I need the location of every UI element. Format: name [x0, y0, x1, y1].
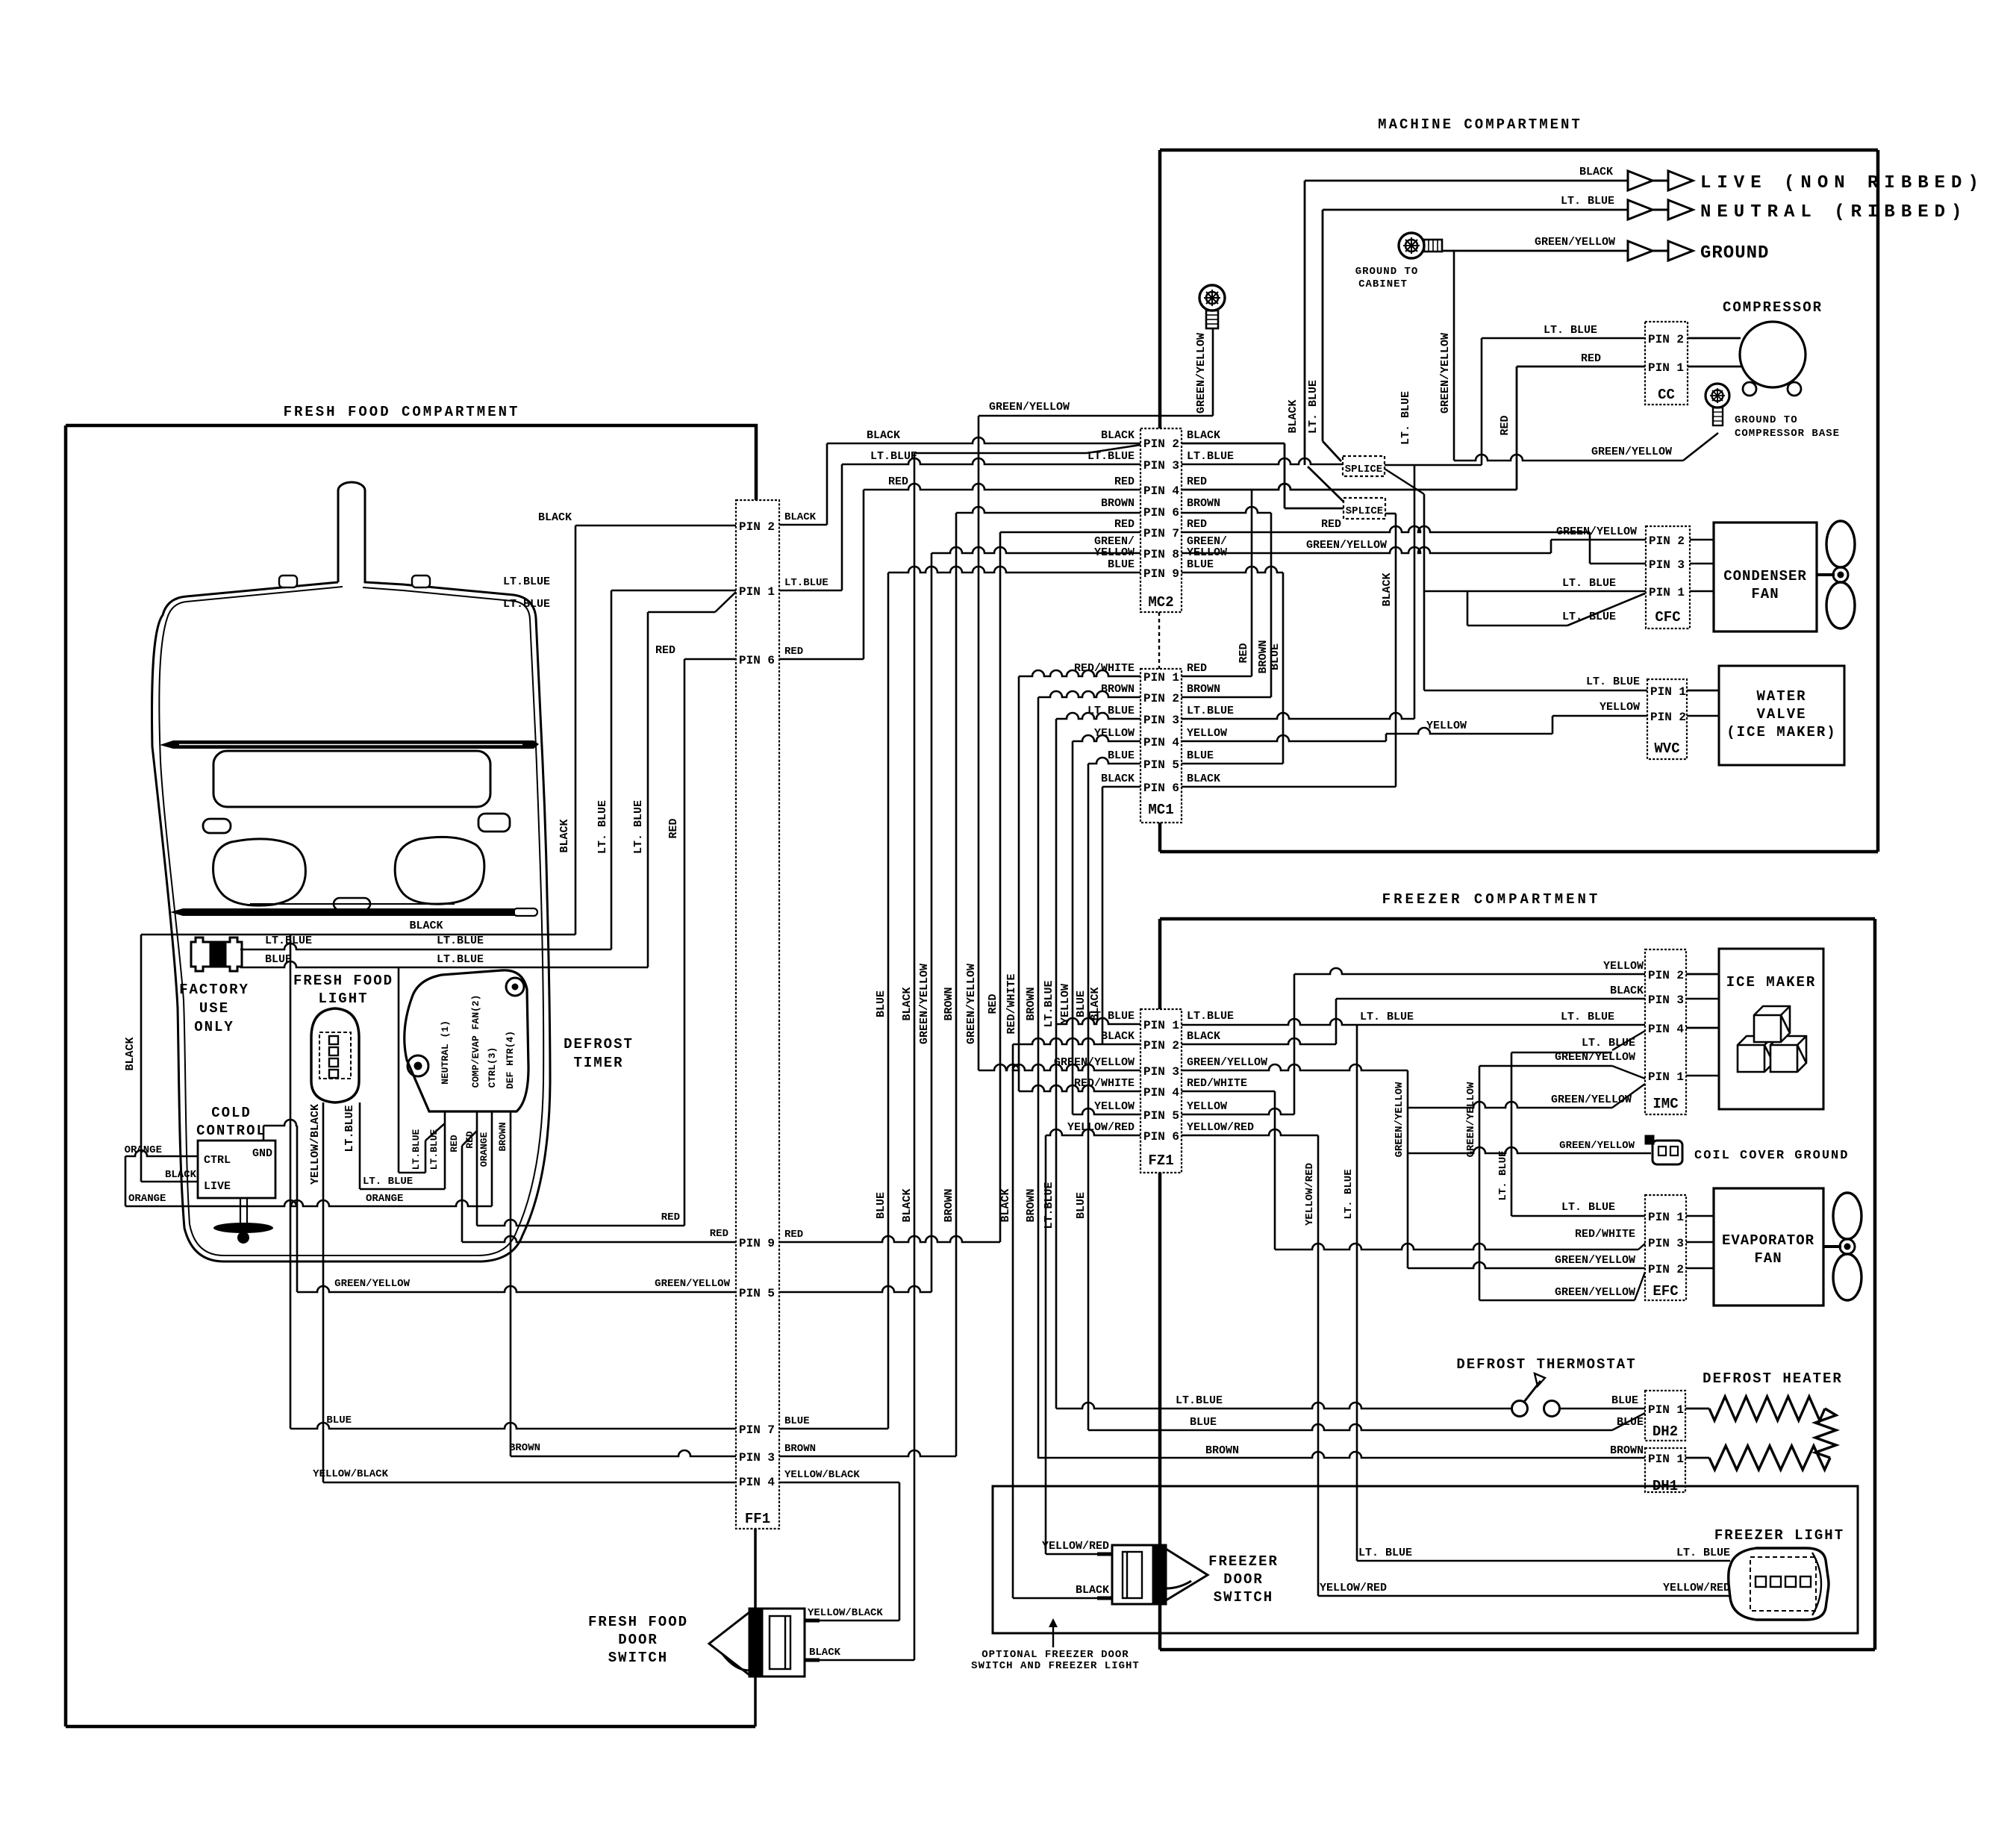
- svg-text:PIN 1: PIN 1: [1648, 1211, 1684, 1224]
- svg-text:MACHINE COMPARTMENT: MACHINE COMPARTMENT: [1378, 116, 1582, 133]
- svg-text:BROWN: BROWN: [1187, 683, 1220, 696]
- wire blue MC2 pin9 riser MC1 pin5: [1182, 567, 1283, 573]
- svg-text:RED: RED: [1581, 352, 1601, 365]
- svg-text:BLACK: BLACK: [1579, 166, 1613, 178]
- svg-text:LIVE (NON RIBBED): LIVE (NON RIBBED): [1700, 173, 1985, 193]
- svg-text:COIL COVER GROUND: COIL COVER GROUND: [1694, 1149, 1849, 1163]
- svg-text:PIN 9: PIN 9: [1143, 567, 1179, 581]
- wire red riser MC1 pin1: [1251, 490, 1253, 676]
- svg-text:SPLICE: SPLICE: [1346, 505, 1383, 517]
- wire brown MC2 pin6 riser MC1 pin2: [1182, 507, 1271, 513]
- svg-text:ONLY: ONLY: [194, 1019, 234, 1035]
- svg-text:BLACK: BLACK: [1101, 773, 1135, 785]
- svg-text:PIN 1: PIN 1: [1648, 361, 1684, 375]
- wire lt.blue from bulb: [359, 1102, 361, 1189]
- wire blue to DH2: [1088, 1424, 1612, 1430]
- svg-text:DOOR: DOOR: [618, 1632, 658, 1648]
- wire blue riser MC2 pin9 to FF1 pin7: [887, 573, 890, 1429]
- svg-text:FF1: FF1: [745, 1511, 770, 1527]
- svg-text:LT.BLUE: LT.BLUE: [1043, 1182, 1055, 1229]
- svg-text:BLACK: BLACK: [538, 511, 572, 524]
- wire lt.blue FF1 pin1 a: [611, 590, 736, 592]
- svg-text:BLACK: BLACK: [1610, 985, 1644, 997]
- wire black riser MC1 pin6 to FZ1 pin2: [1102, 787, 1104, 1044]
- defrost timer body: [405, 970, 528, 1111]
- svg-text:PIN 6: PIN 6: [1143, 506, 1179, 520]
- svg-text:PIN 4: PIN 4: [1143, 736, 1179, 749]
- svg-text:RED: RED: [784, 1229, 803, 1241]
- svg-text:BROWN: BROWN: [1257, 640, 1270, 673]
- splice 2: [1344, 498, 1385, 519]
- svg-text:BLACK: BLACK: [1187, 1030, 1220, 1043]
- evaporator fan box: [1714, 1188, 1823, 1306]
- svg-text:RED/WHITE: RED/WHITE: [1187, 1077, 1247, 1090]
- svg-text:LT.BLUE: LT.BLUE: [428, 1129, 440, 1170]
- svg-text:PIN 2: PIN 2: [1650, 711, 1686, 724]
- svg-text:NEUTRAL (RIBBED): NEUTRAL (RIBBED): [1700, 202, 1967, 222]
- ground lug compressor base: [1706, 384, 1729, 425]
- svg-text:BLACK: BLACK: [999, 1188, 1012, 1222]
- svg-text:RED: RED: [1187, 475, 1207, 488]
- svg-text:USE: USE: [199, 1000, 229, 1017]
- svg-text:LT.BLUE: LT.BLUE: [1043, 980, 1055, 1027]
- svg-text:BLUE: BLUE: [1187, 749, 1214, 762]
- svg-text:RED: RED: [1238, 643, 1250, 663]
- svg-text:RED: RED: [667, 818, 680, 838]
- liner shoulder tabs: [279, 575, 297, 587]
- svg-text:GREEN/YELLOW: GREEN/YELLOW: [1394, 1082, 1405, 1157]
- svg-text:LT. BLUE: LT. BLUE: [632, 800, 645, 854]
- svg-text:LT.BLUE: LT.BLUE: [437, 935, 484, 947]
- svg-text:YELLOW/RED: YELLOW/RED: [1304, 1163, 1316, 1226]
- compressor motor circle: [1740, 322, 1806, 387]
- svg-text:LT.BLUE: LT.BLUE: [437, 953, 484, 966]
- svg-text:YELLOW/BLACK: YELLOW/BLACK: [309, 1104, 322, 1185]
- svg-text:BROWN: BROWN: [497, 1122, 508, 1151]
- wire black door switch: [805, 1659, 914, 1662]
- wire red/white riser MC1 pin1 to FZ1 pin4: [1018, 676, 1020, 1091]
- svg-text:DEFROST HEATER: DEFROST HEATER: [1703, 1370, 1843, 1387]
- svg-text:LT. BLUE: LT. BLUE: [1561, 1201, 1615, 1214]
- wire yellow/red FZ1 pin6 riser to freezer light: [1182, 1129, 1318, 1135]
- wire lt.blue FZ1 pin1 left: [1056, 1018, 1140, 1024]
- svg-text:PIN 2: PIN 2: [739, 520, 775, 534]
- svg-text:RED: RED: [1114, 475, 1135, 488]
- svg-text:SPLICE: SPLICE: [1345, 464, 1382, 475]
- svg-text:PIN 3: PIN 3: [1648, 994, 1684, 1007]
- svg-text:PIN 2: PIN 2: [1648, 333, 1684, 346]
- svg-text:GREEN/YELLOW: GREEN/YELLOW: [1556, 525, 1637, 538]
- svg-text:LT. BLUE: LT. BLUE: [1562, 611, 1616, 623]
- svg-text:YELLOW/RED: YELLOW/RED: [1042, 1540, 1109, 1553]
- svg-text:PIN 5: PIN 5: [1143, 758, 1179, 772]
- svg-text:CC: CC: [1658, 387, 1675, 403]
- svg-text:LT.BLUE: LT.BLUE: [870, 450, 917, 463]
- svg-text:YELLOW: YELLOW: [1094, 1100, 1135, 1113]
- svg-text:PIN 1: PIN 1: [1649, 586, 1685, 599]
- wire red MC2 pin7 to CFC pin3: [1182, 526, 1590, 532]
- svg-text:LT. BLUE: LT. BLUE: [1676, 1547, 1730, 1559]
- svg-text:COLD: COLD: [211, 1105, 252, 1121]
- svg-text:PIN 1: PIN 1: [1648, 1453, 1684, 1466]
- svg-text:PIN 2: PIN 2: [1143, 692, 1179, 705]
- connector EFC: [1645, 1195, 1686, 1300]
- svg-text:BLUE: BLUE: [326, 1414, 352, 1426]
- svg-text:PIN 1: PIN 1: [1143, 1019, 1179, 1032]
- svg-text:YELLOW: YELLOW: [1094, 546, 1135, 559]
- wire blue riser MC1 pin5 to DH2: [1087, 764, 1090, 1430]
- svg-text:BLUE: BLUE: [784, 1415, 810, 1427]
- connector CC compressor: [1645, 322, 1688, 405]
- liner bottom bar: [170, 908, 515, 916]
- svg-text:GREEN/YELLOW: GREEN/YELLOW: [1306, 539, 1387, 552]
- svg-text:GREEN/YELLOW: GREEN/YELLOW: [1195, 333, 1208, 414]
- wire black to LIVE: [141, 1181, 198, 1183]
- wire lt.blue riser MC1 pin3: [1414, 465, 1416, 719]
- svg-text:GREEN/YELLOW: GREEN/YELLOW: [1535, 236, 1615, 249]
- wire yellow/black from bulb: [322, 1102, 325, 1482]
- wire red FF1 pin6 to MC2: [779, 658, 864, 661]
- svg-text:RED: RED: [1187, 662, 1207, 675]
- svg-text:BROWN: BROWN: [1101, 497, 1135, 510]
- svg-text:RED: RED: [661, 1211, 680, 1223]
- defrost timer neutral wires lt.blue: [444, 1111, 446, 1189]
- svg-text:PIN 4: PIN 4: [1143, 1086, 1179, 1099]
- svg-text:EVAPORATOR: EVAPORATOR: [1722, 1232, 1814, 1249]
- wire green/yellow riser MC2 pin8 to FF1 pin5: [931, 553, 933, 1292]
- wire green/yellow lug2 down: [1212, 328, 1214, 416]
- svg-text:FRESH FOOD: FRESH FOOD: [293, 973, 393, 989]
- svg-text:FACTORY: FACTORY: [179, 982, 249, 998]
- wire blue thermostat to DH2: [1561, 1408, 1645, 1410]
- svg-text:RED: RED: [888, 475, 908, 488]
- wire green/yellow riser ground to FZ1 pin3: [978, 416, 980, 1070]
- wire red vertical to defrost timer: [684, 659, 686, 1226]
- svg-text:PIN 1: PIN 1: [1650, 685, 1686, 699]
- svg-text:PIN 3: PIN 3: [1143, 1065, 1179, 1079]
- svg-text:LT.BLUE: LT.BLUE: [411, 1129, 422, 1170]
- svg-text:FREEZER LIGHT: FREEZER LIGHT: [1714, 1527, 1844, 1544]
- wire yellow/red riser FZ1 pin6 to freezer door switch: [1045, 1135, 1047, 1554]
- svg-text:ORANGE: ORANGE: [125, 1144, 162, 1156]
- svg-text:WATER: WATER: [1756, 688, 1806, 705]
- wire black FZ1 pin2 to IMC pin3: [1182, 1038, 1336, 1044]
- wire blue row to fuse: [240, 961, 648, 967]
- svg-text:CTRL: CTRL: [204, 1154, 231, 1167]
- svg-text:GREEN/YELLOW: GREEN/YELLOW: [1555, 1051, 1635, 1064]
- svg-text:DEFROST: DEFROST: [564, 1036, 634, 1052]
- wire black riser freezer door switch: [1012, 1044, 1014, 1598]
- svg-text:YELLOW: YELLOW: [1187, 727, 1227, 740]
- svg-text:ORANGE: ORANGE: [128, 1193, 166, 1205]
- svg-text:LT.BLUE: LT.BLUE: [265, 935, 312, 947]
- wire lt.blue MC2 pin3 to splice1: [1182, 458, 1343, 464]
- wire yellow MC1 pin4 to WVC pin2: [1182, 735, 1386, 741]
- svg-text:BLACK: BLACK: [1187, 429, 1220, 442]
- svg-text:CTRL(3): CTRL(3): [487, 1047, 498, 1088]
- connector IMC: [1645, 949, 1686, 1114]
- svg-text:BROWN: BROWN: [784, 1443, 816, 1455]
- svg-text:DH1: DH1: [1653, 1478, 1678, 1494]
- connector FZ1: [1140, 1009, 1182, 1173]
- condenser fan box: [1714, 523, 1817, 631]
- wire green/yellow ground: [1442, 250, 1628, 252]
- ice maker box: [1719, 949, 1823, 1109]
- svg-text:PIN 1: PIN 1: [1648, 1070, 1684, 1084]
- svg-text:PIN 3: PIN 3: [739, 1451, 775, 1465]
- svg-text:PIN 9: PIN 9: [739, 1237, 775, 1250]
- cold control knob: [240, 1198, 241, 1224]
- svg-text:BLACK: BLACK: [867, 429, 900, 442]
- wire red/white FZ1 pin4 left: [1019, 1085, 1140, 1091]
- connector MC1: [1140, 669, 1182, 823]
- wire green/yellow lower diag to EFC pin2: [1479, 1300, 1635, 1302]
- defrost heater element 1: [1685, 1408, 1709, 1410]
- svg-text:LT. BLUE: LT. BLUE: [1360, 1011, 1414, 1023]
- svg-text:VALVE: VALVE: [1756, 706, 1806, 723]
- wire lt.blue row to fuse: [240, 943, 611, 949]
- svg-text:ICE MAKER: ICE MAKER: [1726, 974, 1817, 991]
- svg-text:RED: RED: [784, 646, 803, 658]
- evaporator fan blades: [1823, 1193, 1861, 1300]
- svg-text:BLACK: BLACK: [901, 987, 914, 1020]
- svg-text:WVC: WVC: [1654, 740, 1679, 757]
- svg-text:PIN 4: PIN 4: [1143, 484, 1179, 498]
- svg-text:YELLOW: YELLOW: [1603, 960, 1644, 973]
- svg-text:PIN 5: PIN 5: [1143, 1109, 1179, 1123]
- freezer light bulb: [1729, 1548, 1829, 1620]
- wire green/yellow to compressor base: [1454, 455, 1683, 461]
- liner door gasket band: [160, 740, 539, 749]
- svg-text:LT.BLUE: LT.BLUE: [1176, 1394, 1223, 1407]
- svg-text:BLACK: BLACK: [1076, 1584, 1109, 1597]
- liner inner door panel: [213, 751, 490, 807]
- wire yellow FZ1 pin5 to IMC pin2: [1182, 1108, 1294, 1114]
- svg-text:OPTIONAL FREEZER DOOR: OPTIONAL FREEZER DOOR: [982, 1649, 1129, 1661]
- svg-text:FZ1: FZ1: [1148, 1152, 1173, 1169]
- ice cubes icon: [1738, 1006, 1806, 1072]
- svg-text:BROWN: BROWN: [1187, 497, 1220, 510]
- svg-text:LT.BLUE: LT.BLUE: [784, 577, 828, 589]
- svg-text:PIN 3: PIN 3: [1143, 459, 1179, 472]
- svg-text:YELLOW: YELLOW: [1600, 701, 1640, 714]
- svg-text:LT. BLUE: LT. BLUE: [1582, 1037, 1635, 1049]
- svg-text:PIN 2: PIN 2: [1648, 1263, 1684, 1276]
- svg-text:BLACK: BLACK: [1101, 1030, 1135, 1043]
- svg-text:ORANGE: ORANGE: [366, 1193, 403, 1205]
- svg-text:TIMER: TIMER: [573, 1055, 623, 1071]
- svg-text:SWITCH: SWITCH: [1214, 1589, 1273, 1606]
- freezer door switch: [1097, 1545, 1208, 1604]
- wire lt.blue FZ1 pin1 to IMC pin4: [1182, 1019, 1645, 1025]
- liner bottom shelf line: [250, 903, 455, 905]
- svg-text:BLUE: BLUE: [875, 1192, 887, 1219]
- fuse factory use only: [191, 938, 242, 971]
- svg-text:BLUE: BLUE: [1611, 1394, 1638, 1407]
- svg-text:LT.BLUE: LT.BLUE: [503, 598, 550, 611]
- svg-text:RED/WHITE: RED/WHITE: [1575, 1228, 1635, 1241]
- svg-text:PIN 4: PIN 4: [739, 1476, 775, 1489]
- wire lt.blue to thermostat: [1056, 1403, 1511, 1409]
- wire green/yellow FF1 pin5 row: [297, 1286, 736, 1292]
- svg-text:LT.BLUE: LT.BLUE: [503, 575, 550, 588]
- svg-text:RED: RED: [710, 1228, 728, 1240]
- connector FF1: [736, 500, 779, 1529]
- svg-text:BROWN: BROWN: [1025, 1188, 1037, 1222]
- svg-text:PIN 2: PIN 2: [1649, 534, 1685, 548]
- wire brown riser MC1 pin2 to DH1: [1037, 697, 1040, 1459]
- svg-text:BLUE: BLUE: [1075, 991, 1087, 1017]
- svg-text:GROUND: GROUND: [1700, 243, 1769, 263]
- svg-text:BLACK: BLACK: [1381, 573, 1394, 606]
- svg-text:BLUE: BLUE: [1108, 749, 1135, 762]
- wire green/yellow to EFC pin2: [1408, 1262, 1645, 1268]
- svg-text:COMPRESSOR BASE: COMPRESSOR BASE: [1735, 428, 1840, 440]
- svg-text:LT. BLUE: LT. BLUE: [1544, 324, 1597, 337]
- svg-text:YELLOW: YELLOW: [1094, 727, 1135, 740]
- svg-text:COMP/EVAP FAN(2): COMP/EVAP FAN(2): [470, 995, 481, 1088]
- svg-text:BLACK: BLACK: [1101, 429, 1135, 442]
- svg-text:GREEN/YELLOW: GREEN/YELLOW: [989, 401, 1070, 414]
- svg-text:BLUE: BLUE: [1617, 1416, 1644, 1429]
- svg-text:GREEN/YELLOW: GREEN/YELLOW: [1559, 1140, 1635, 1152]
- wire lt.blue to CC pin2: [1482, 337, 1645, 340]
- wire lt.blue riser to freezer light: [1356, 1025, 1358, 1561]
- svg-text:PIN 3: PIN 3: [1143, 714, 1179, 727]
- svg-text:PIN 7: PIN 7: [1143, 527, 1179, 540]
- svg-text:BLACK: BLACK: [1287, 399, 1299, 433]
- svg-text:BLACK: BLACK: [558, 819, 571, 852]
- svg-text:ORANGE: ORANGE: [478, 1132, 490, 1167]
- svg-text:YELLOW/BLACK: YELLOW/BLACK: [313, 1468, 388, 1480]
- connector CFC: [1646, 526, 1690, 628]
- svg-text:MC1: MC1: [1148, 802, 1173, 818]
- wire lt.blue branch from neutral bus: [398, 967, 400, 1173]
- wire lt.blue second CFC pin1: [1467, 591, 1469, 626]
- svg-text:FREEZER COMPARTMENT: FREEZER COMPARTMENT: [1382, 891, 1601, 908]
- svg-text:LT. BLUE: LT. BLUE: [1497, 1150, 1509, 1200]
- svg-text:LT. BLUE: LT. BLUE: [1562, 577, 1616, 590]
- optional arrow: [1052, 1623, 1054, 1647]
- wire yellow/red to freezer door switch: [1046, 1553, 1097, 1556]
- svg-text:BLUE: BLUE: [1108, 558, 1135, 571]
- svg-text:LT. BLUE: LT. BLUE: [1307, 380, 1320, 434]
- wire gnd green/yellow from cold control: [263, 1126, 265, 1141]
- svg-text:NEUTRAL (1): NEUTRAL (1): [440, 1020, 451, 1085]
- svg-text:GREEN/YELLOW: GREEN/YELLOW: [1591, 446, 1672, 458]
- ground lug to cabinet: [1399, 233, 1442, 258]
- svg-text:BROWN: BROWN: [1025, 987, 1037, 1020]
- svg-text:BLUE: BLUE: [1190, 1416, 1217, 1429]
- wire green/yellow to coil cover ground: [1408, 1147, 1651, 1153]
- svg-text:GREEN/YELLOW: GREEN/YELLOW: [1555, 1254, 1635, 1267]
- wire lt.blue bulb to neutral: [360, 1188, 445, 1191]
- wire black splice2 out riser MC1 pin6: [1385, 513, 1396, 515]
- svg-text:LIGHT: LIGHT: [318, 991, 368, 1007]
- svg-text:LT. BLUE: LT. BLUE: [596, 800, 609, 854]
- svg-text:PIN 6: PIN 6: [1143, 782, 1179, 795]
- wire lt.blue to freezer light: [1357, 1560, 1730, 1562]
- svg-text:GREEN/YELLOW: GREEN/YELLOW: [1439, 333, 1452, 414]
- svg-text:BROWN: BROWN: [1610, 1444, 1644, 1457]
- connector WVC: [1647, 679, 1687, 759]
- svg-text:SWITCH: SWITCH: [608, 1650, 668, 1666]
- liner kidney pocket right: [395, 837, 484, 904]
- fresh food light bulb: [311, 1008, 359, 1102]
- svg-text:FRESH FOOD COMPARTMENT: FRESH FOOD COMPARTMENT: [284, 404, 520, 420]
- wire green/yellow second to IMC pin1: [1408, 1102, 1612, 1108]
- wire red to CC pin1: [1517, 366, 1645, 368]
- wire yellow/red to freezer light: [1318, 1595, 1730, 1597]
- svg-text:LT.BLUE: LT.BLUE: [1187, 450, 1234, 463]
- ground lug 2: [1199, 285, 1225, 328]
- defrost thermostat switch: [1512, 1373, 1560, 1417]
- svg-text:LT. BLUE: LT. BLUE: [1399, 391, 1412, 445]
- svg-text:BLACK: BLACK: [1187, 773, 1220, 785]
- refrigerator liner outline: [152, 482, 550, 1261]
- wire orange timer ctrl terminal: [491, 1111, 493, 1206]
- svg-text:COMPRESSOR: COMPRESSOR: [1723, 299, 1823, 316]
- svg-text:LT.BLUE: LT.BLUE: [1187, 1010, 1234, 1023]
- wire red FF1 pin9 row: [462, 1236, 736, 1242]
- connector DH1: [1645, 1448, 1685, 1492]
- svg-text:DOOR: DOOR: [1223, 1571, 1264, 1588]
- svg-text:LT.BLUE: LT.BLUE: [1187, 705, 1234, 717]
- svg-text:PIN 1: PIN 1: [1648, 1403, 1684, 1417]
- svg-text:PIN 1: PIN 1: [1143, 671, 1179, 684]
- svg-text:LT.BLUE: LT.BLUE: [343, 1105, 356, 1152]
- wire green/yellow FZ1 pin3 riser: [1182, 1064, 1408, 1070]
- svg-text:SWITCH AND FREEZER LIGHT: SWITCH AND FREEZER LIGHT: [971, 1660, 1140, 1672]
- svg-text:FRESH FOOD: FRESH FOOD: [588, 1614, 688, 1630]
- live arrows: [1628, 171, 1653, 190]
- svg-text:GROUND TO: GROUND TO: [1355, 266, 1419, 278]
- svg-text:FAN: FAN: [1751, 586, 1779, 602]
- svg-text:LT.BLUE: LT.BLUE: [1087, 705, 1135, 717]
- svg-text:YELLOW/RED: YELLOW/RED: [1320, 1582, 1387, 1594]
- wire black live: [1305, 180, 1628, 182]
- svg-text:YELLOW/RED: YELLOW/RED: [1187, 1121, 1254, 1134]
- wire yellow/black door switch: [805, 1620, 899, 1622]
- svg-text:BLACK: BLACK: [165, 1169, 197, 1181]
- svg-text:BLACK: BLACK: [124, 1037, 137, 1070]
- svg-text:PIN 2: PIN 2: [1143, 437, 1179, 451]
- svg-text:LT.BLUE: LT.BLUE: [1087, 1010, 1135, 1023]
- wire lt.blue to WVC pin1: [1424, 690, 1647, 692]
- machine compartment box: [1160, 149, 1878, 152]
- svg-text:BLACK: BLACK: [784, 511, 817, 523]
- wire black FF1 pin2 left: [575, 525, 736, 527]
- svg-text:LT. BLUE: LT. BLUE: [1586, 676, 1640, 688]
- svg-text:BROWN: BROWN: [943, 1188, 955, 1222]
- svg-text:RED/WHITE: RED/WHITE: [1074, 662, 1135, 675]
- freezer compartment box: [1160, 917, 1875, 921]
- wire blue FF1 pin7 row: [290, 1423, 736, 1429]
- svg-text:LIVE: LIVE: [204, 1180, 231, 1193]
- wire lt.blue splice1 out: [1385, 464, 1482, 467]
- wire black to freezer door switch: [1013, 1597, 1097, 1600]
- liner slot right: [478, 814, 510, 832]
- svg-text:GREEN/YELLOW: GREEN/YELLOW: [334, 1278, 410, 1290]
- svg-text:CONDENSER: CONDENSER: [1723, 568, 1807, 584]
- wire brown timer def htr terminal: [510, 1111, 512, 1456]
- wire lt.blue FF1 pin1 b: [648, 611, 715, 614]
- connector DH2: [1645, 1391, 1685, 1441]
- wire yellow FZ1 pin5 left: [1073, 1108, 1140, 1114]
- svg-text:CABINET: CABINET: [1358, 278, 1408, 290]
- svg-text:YELLOW: YELLOW: [1187, 1100, 1227, 1113]
- coil cover ground icon: [1645, 1135, 1682, 1164]
